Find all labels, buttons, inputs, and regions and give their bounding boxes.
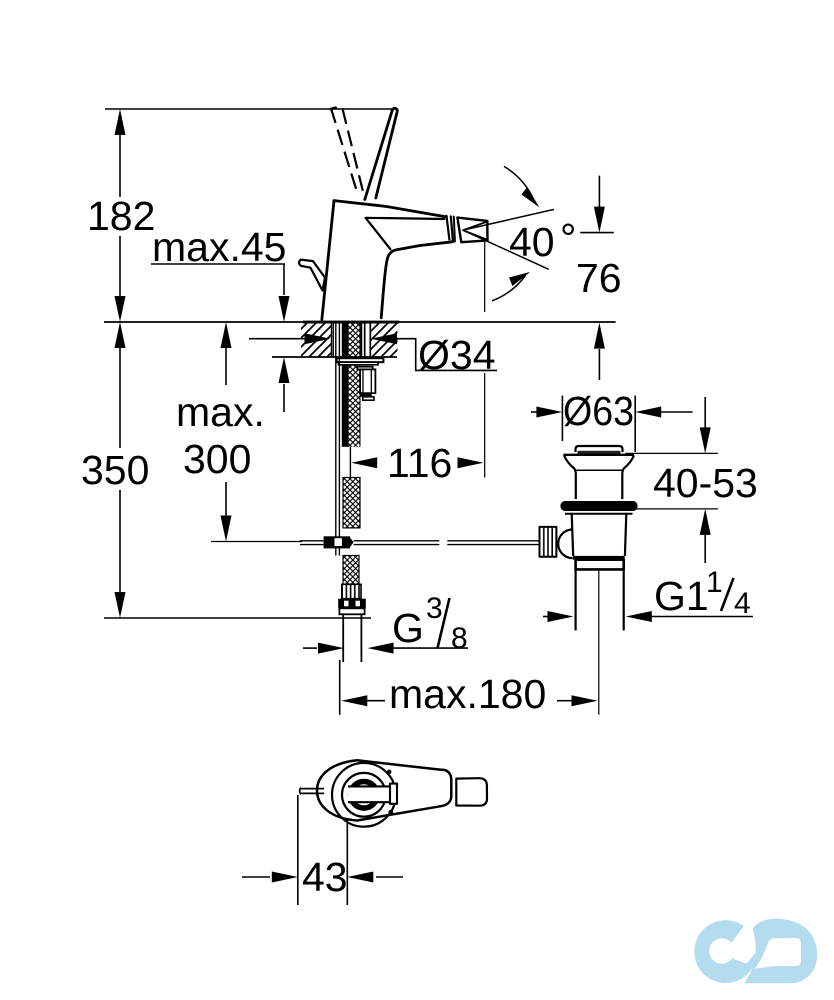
svg-text:max.: max. (176, 389, 265, 435)
svg-text:G: G (392, 605, 424, 651)
svg-text:4: 4 (734, 587, 751, 620)
svg-text:43: 43 (302, 854, 348, 900)
svg-text:40: 40 (509, 219, 555, 265)
svg-text:Ø34: Ø34 (418, 332, 496, 378)
svg-text:max.45: max.45 (152, 224, 286, 270)
svg-text:G1: G1 (654, 573, 709, 619)
svg-text:40-53: 40-53 (653, 460, 758, 506)
svg-text:350: 350 (81, 447, 149, 493)
svg-text:°: ° (560, 215, 576, 261)
svg-text:76: 76 (576, 255, 622, 301)
svg-text:Ø63: Ø63 (563, 388, 634, 434)
svg-text:182: 182 (87, 193, 155, 239)
svg-text:1: 1 (706, 566, 723, 599)
svg-text:8: 8 (451, 622, 468, 655)
svg-text:max.180: max.180 (389, 671, 546, 717)
svg-text:116: 116 (387, 440, 452, 486)
svg-text:3: 3 (426, 592, 443, 625)
svg-text:300: 300 (183, 436, 251, 482)
